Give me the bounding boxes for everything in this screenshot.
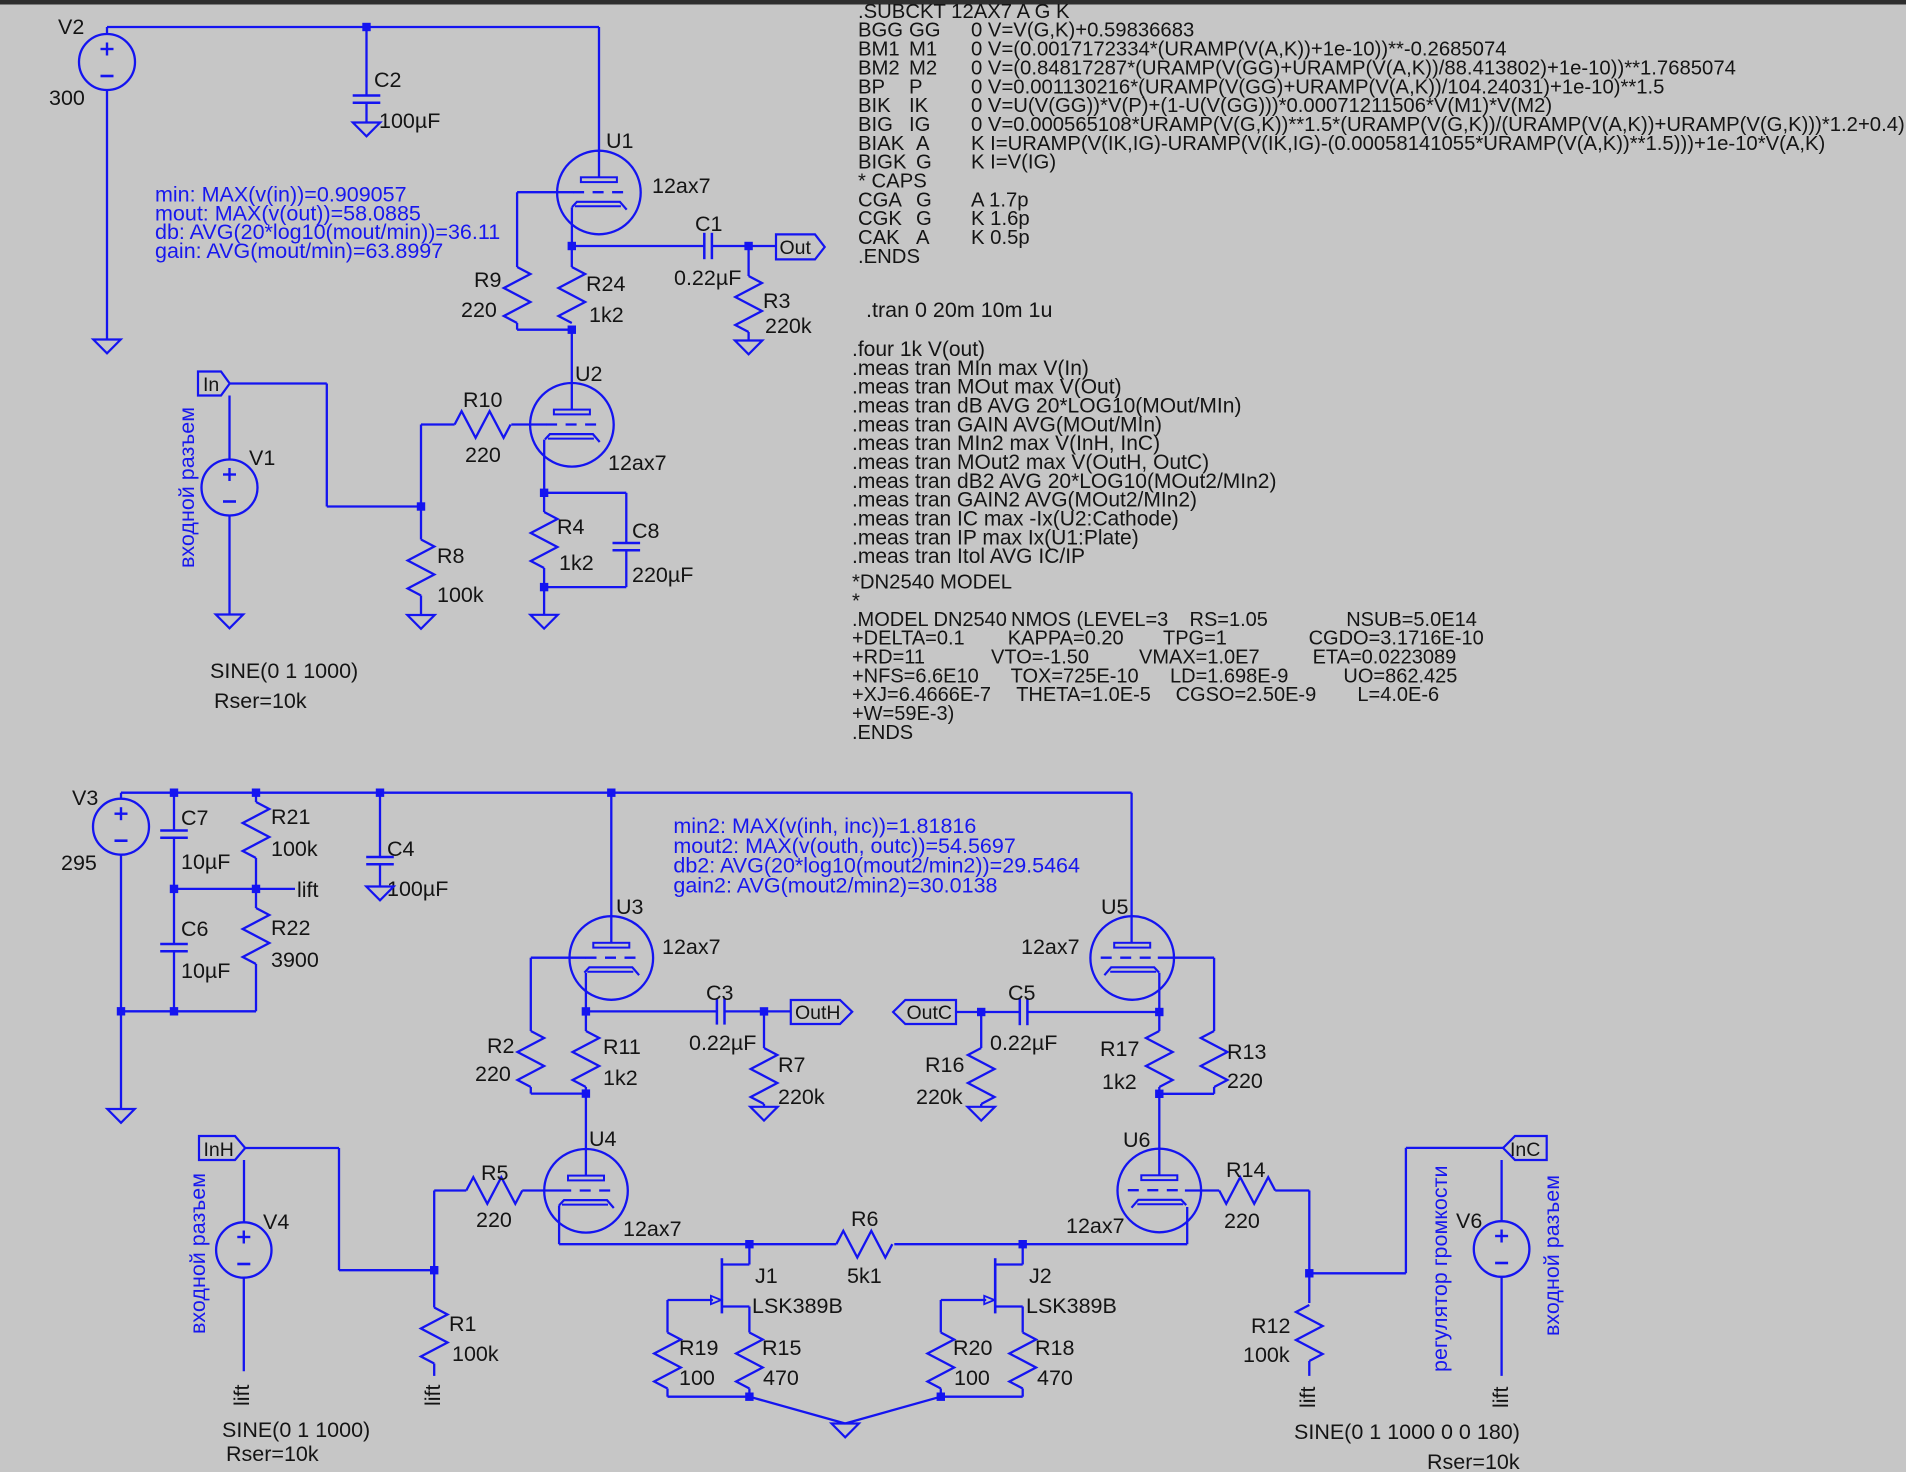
triode U6 xyxy=(1118,1149,1202,1233)
node R4 bottom / C8 xyxy=(540,583,548,591)
node J2 drain xyxy=(1019,1240,1027,1248)
svg-text:100k: 100k xyxy=(1243,1343,1290,1367)
svg-text:12ax7: 12ax7 xyxy=(662,935,721,959)
wire C4 top lead xyxy=(379,793,381,857)
ground R3 xyxy=(735,341,762,355)
wire C2 bottom lead xyxy=(365,103,367,123)
wire In to R8 node xyxy=(230,382,327,384)
wire R4 top lead xyxy=(543,493,545,512)
svg-text:SINE(0 1 1000 0 0 180): SINE(0 1 1000 0 0 180) xyxy=(1294,1420,1520,1444)
node U3 plate rail xyxy=(607,789,615,797)
svg-text:3900: 3900 xyxy=(271,948,319,972)
svg-text:10µF: 10µF xyxy=(181,959,230,983)
wire diagonal J1 to ground xyxy=(749,1397,845,1424)
node cathode U1 / output xyxy=(568,242,576,250)
node U5 cathode xyxy=(1155,1008,1163,1016)
svg-text:C4: C4 xyxy=(387,837,415,861)
node R21 top xyxy=(252,789,260,797)
resistor R16 xyxy=(968,1048,995,1104)
svg-text:0.22µF: 0.22µF xyxy=(990,1031,1057,1055)
wire R9 bottom to node xyxy=(516,323,518,330)
svg-text:Out: Out xyxy=(780,237,812,259)
capacitor C3 xyxy=(716,998,719,1024)
svg-text:470: 470 xyxy=(1037,1366,1073,1390)
port flag OutH xyxy=(791,1000,852,1024)
svg-text:220: 220 xyxy=(476,1208,512,1232)
triode U2 xyxy=(530,383,614,467)
node C7/C6 lift xyxy=(170,885,178,893)
node Out / R3 xyxy=(744,242,752,250)
wire J2 source to R18 xyxy=(1022,1307,1024,1333)
resistor R21 xyxy=(243,802,270,858)
wire R6 to J2 node xyxy=(894,1243,1187,1245)
wire R17 top lead xyxy=(1158,1012,1160,1031)
wire top rail 2 (V3 to U5) xyxy=(121,792,1132,794)
svg-text:100µF: 100µF xyxy=(387,877,448,901)
svg-text:220: 220 xyxy=(1224,1209,1260,1233)
svg-text:R7: R7 xyxy=(778,1053,805,1077)
svg-text:R21: R21 xyxy=(271,805,310,829)
svg-text:.meas tran Itol AVG IC/IP: .meas tran Itol AVG IC/IP xyxy=(852,545,1085,568)
svg-text:R3: R3 xyxy=(763,289,791,313)
svg-text:470: 470 xyxy=(763,1366,799,1390)
ground V2 xyxy=(93,340,120,354)
wire C1 to Out node xyxy=(712,245,776,247)
wire J1 source to R15 xyxy=(748,1307,750,1333)
wire R8 bottom lead xyxy=(420,596,422,616)
wire R1 top lead xyxy=(433,1270,435,1307)
triode U1 xyxy=(557,151,641,235)
wire top rail V2 to U1 plate xyxy=(107,26,599,28)
svg-text:Rser=10k: Rser=10k xyxy=(214,689,307,713)
wire C8 bottom branch xyxy=(625,550,627,587)
svg-text:lift: lift xyxy=(421,1384,445,1406)
wire R10 right lead to U2 grid xyxy=(511,423,546,425)
node U3 cathode / OutH xyxy=(582,1007,590,1015)
ground R4 xyxy=(530,615,557,629)
svg-text:U3: U3 xyxy=(616,895,644,919)
svg-text:входной разъем: входной разъем xyxy=(175,407,199,568)
wire node to C5 xyxy=(981,1011,1020,1013)
ground center xyxy=(832,1424,859,1438)
svg-text:12ax7: 12ax7 xyxy=(652,174,711,198)
resistor R4 xyxy=(531,512,558,568)
wire R16 top lead xyxy=(980,1012,982,1048)
wire U1 grid to R9 xyxy=(517,191,573,193)
svg-text:C7: C7 xyxy=(181,806,208,830)
svg-text:lift: lift xyxy=(297,878,319,902)
svg-text:C3: C3 xyxy=(706,981,734,1005)
resistor R24 xyxy=(571,246,573,267)
svg-text:C2: C2 xyxy=(374,68,401,92)
svg-text:220: 220 xyxy=(475,1062,511,1086)
node J1 bottom xyxy=(745,1393,753,1401)
svg-text:CGSO=2.50E-9: CGSO=2.50E-9 xyxy=(1176,684,1317,706)
wire C7 to lift node xyxy=(173,838,175,889)
wire InH down to V4 xyxy=(243,1160,245,1223)
svg-text:SINE(0 1 1000): SINE(0 1 1000) xyxy=(210,659,358,683)
resistor R6 xyxy=(836,1231,892,1258)
wire R18 bottom xyxy=(1022,1389,1024,1397)
svg-text:220k: 220k xyxy=(916,1085,963,1109)
node OutC / R16 / C5 xyxy=(977,1008,985,1016)
svg-text:220k: 220k xyxy=(765,314,812,338)
resistor R7 xyxy=(751,1048,778,1104)
wire C7 top lead xyxy=(173,793,175,831)
wire bottom rail to R22 xyxy=(121,1010,256,1012)
svg-text:*DN2540 MODEL: *DN2540 MODEL xyxy=(852,572,1012,594)
triode U3 xyxy=(570,916,654,1000)
wire V1 bottom to ground xyxy=(228,516,230,615)
wire U4 cathode to bus xyxy=(558,1205,560,1244)
wire cathode node to C1 xyxy=(572,245,705,247)
wire C8 top branch xyxy=(544,492,626,494)
svg-text:R15: R15 xyxy=(762,1336,801,1360)
capacitor C7 xyxy=(160,829,188,832)
wire U1 cathode lead xyxy=(571,207,573,246)
svg-text:R12: R12 xyxy=(1251,1314,1290,1338)
wire InC down to V6 xyxy=(1500,1160,1502,1221)
svg-text:U5: U5 xyxy=(1101,895,1129,919)
svg-text:R16: R16 xyxy=(925,1053,964,1077)
svg-text:220k: 220k xyxy=(778,1085,825,1109)
capacitor C1 xyxy=(703,233,706,259)
wire lift net xyxy=(174,888,295,890)
resistor R2 xyxy=(518,1031,545,1087)
wire R7 top lead xyxy=(763,1011,765,1048)
port flag Out xyxy=(776,234,825,259)
wire V6 bottom lift xyxy=(1500,1277,1502,1376)
node R8 top xyxy=(417,502,425,510)
svg-text:R17: R17 xyxy=(1100,1037,1139,1061)
capacitor C6 xyxy=(160,943,188,946)
svg-text:K I=URAMP(V(IK,IG)-URAMP(V(IK,: K I=URAMP(V(IK,IG)-URAMP(V(IK,IG)-(0.000… xyxy=(971,133,1825,155)
svg-text:295: 295 xyxy=(61,851,97,875)
node U2 cathode / R4 / C8 xyxy=(540,489,548,497)
svg-text:12ax7: 12ax7 xyxy=(623,1217,682,1241)
svg-text:L=4.0E-6: L=4.0E-6 xyxy=(1357,684,1439,706)
wire R22 top lead xyxy=(255,889,257,908)
svg-text:C6: C6 xyxy=(181,917,209,941)
svg-text:R9: R9 xyxy=(474,268,501,292)
wire R1 bottom lift xyxy=(433,1364,435,1376)
node R13/R17 bottom xyxy=(1155,1090,1163,1098)
wire InH to R1 node xyxy=(245,1147,339,1149)
svg-text:R24: R24 xyxy=(586,272,625,296)
wire R19 bottom xyxy=(666,1389,668,1397)
svg-text:lift: lift xyxy=(1489,1386,1513,1408)
node R9/R24 bottom xyxy=(568,326,576,334)
resistor R8 xyxy=(408,540,435,596)
voltage source V2 xyxy=(79,34,135,90)
resistor R3 xyxy=(735,276,762,332)
svg-text:InC: InC xyxy=(1510,1139,1540,1161)
wire U6 cathode to bus xyxy=(1186,1207,1188,1244)
svg-text:12ax7: 12ax7 xyxy=(1021,935,1080,959)
svg-text:K 0.5p: K 0.5p xyxy=(971,227,1030,249)
resistor R22 xyxy=(243,908,270,964)
wire V2 top lead xyxy=(106,27,108,34)
triode U5 xyxy=(1090,916,1174,1000)
wire R2 bottom xyxy=(530,1087,532,1094)
wire U3 cathode lead xyxy=(585,973,587,1012)
resistor R9 xyxy=(504,267,531,323)
svg-text:K I=V(IG): K I=V(IG) xyxy=(971,152,1056,174)
wire node to U2 plate xyxy=(571,330,573,411)
voltage source V6 xyxy=(1474,1221,1530,1277)
svg-text:0.22µF: 0.22µF xyxy=(689,1031,756,1055)
svg-text:gain: AVG(mout/min)=63.8997: gain: AVG(mout/min)=63.8997 xyxy=(155,239,443,263)
svg-text:lift: lift xyxy=(1296,1386,1320,1408)
svg-text:входной разъем: входной разъем xyxy=(1540,1175,1564,1336)
svg-text:12ax7: 12ax7 xyxy=(608,451,667,475)
wire U5 grid to R13 xyxy=(1158,957,1214,959)
node R1 top xyxy=(430,1266,438,1274)
svg-text:R14: R14 xyxy=(1226,1158,1265,1182)
wire R16 bottom lead xyxy=(980,1104,982,1107)
svg-text:220: 220 xyxy=(1227,1069,1263,1093)
svg-text:100k: 100k xyxy=(452,1342,499,1366)
ground V3 xyxy=(107,1109,134,1123)
wire R17 bottom lead xyxy=(1158,1087,1160,1094)
svg-text:C1: C1 xyxy=(695,212,722,236)
node R12 top xyxy=(1305,1269,1313,1277)
svg-text:5k1: 5k1 xyxy=(847,1264,882,1288)
wire node to riser xyxy=(1309,1272,1406,1274)
node R2/R11 bottom xyxy=(582,1089,590,1097)
capacitor C5 xyxy=(1019,999,1022,1025)
wire R12 bottom lift xyxy=(1308,1361,1310,1376)
resistor R18 xyxy=(1009,1333,1036,1389)
ground R16 xyxy=(968,1107,995,1121)
wire C3 to OutH node xyxy=(725,1010,791,1012)
wire U3 grid to R2 xyxy=(531,957,586,959)
svg-text:1k2: 1k2 xyxy=(559,551,594,575)
wire R11 top lead xyxy=(585,1011,587,1031)
jfet J2 xyxy=(994,1258,997,1313)
ground V1 xyxy=(216,615,243,629)
svg-text:1k2: 1k2 xyxy=(1102,1070,1137,1094)
svg-text:R5: R5 xyxy=(481,1161,509,1185)
resistor R20 xyxy=(928,1333,955,1389)
wire V2 bottom to ground xyxy=(106,90,108,340)
port flag OutC xyxy=(893,1000,956,1024)
svg-text:регулятор громкости: регулятор громкости xyxy=(1428,1166,1452,1372)
wire R22 bottom lead xyxy=(255,964,257,1011)
wire R21 top lead xyxy=(255,793,257,802)
wire R10 left lead xyxy=(421,423,455,425)
wire R4 node to ground xyxy=(543,587,545,615)
svg-text:C5: C5 xyxy=(1008,981,1036,1005)
wire U5 cathode lead xyxy=(1158,973,1160,1012)
voltage source V3 xyxy=(93,799,149,855)
svg-text:220: 220 xyxy=(461,298,497,322)
ground C4 xyxy=(366,887,393,901)
capacitor C8 xyxy=(613,542,641,545)
resistor R13 xyxy=(1201,1031,1228,1087)
svg-text:J2: J2 xyxy=(1029,1264,1052,1288)
svg-text:R10: R10 xyxy=(463,388,502,412)
wire In down to V1 xyxy=(228,396,230,460)
capacitor C2 xyxy=(353,94,381,97)
resistor R19 xyxy=(654,1333,681,1389)
svg-text:R8: R8 xyxy=(437,544,465,568)
wire U3 plate lead xyxy=(610,793,612,943)
svg-text:R6: R6 xyxy=(851,1207,879,1231)
wire node to U4 plate xyxy=(585,1094,587,1176)
svg-text:входной разъем: входной разъем xyxy=(186,1173,210,1334)
jfet J1 xyxy=(721,1258,724,1313)
wire R14 right lead xyxy=(1275,1189,1309,1191)
resistor R12 xyxy=(1296,1305,1323,1361)
node V3 bottom rail xyxy=(117,1007,125,1015)
wire V3 top lead xyxy=(120,793,122,799)
resistor R11 xyxy=(573,1031,600,1087)
svg-text:V3: V3 xyxy=(72,786,98,810)
svg-text:12ax7: 12ax7 xyxy=(1066,1214,1125,1238)
svg-text:LSK389B: LSK389B xyxy=(752,1294,843,1318)
voltage source V1 xyxy=(202,460,258,516)
wire R3 top lead xyxy=(747,246,749,276)
svg-text:U4: U4 xyxy=(589,1127,617,1151)
svg-text:220µF: 220µF xyxy=(632,563,693,587)
wire R5 right lead to U4 grid xyxy=(522,1189,560,1191)
ground R7 xyxy=(750,1107,777,1121)
wire C2 top lead xyxy=(365,27,367,96)
node R21 bottom lift xyxy=(252,885,260,893)
wire J2 gate to R20 xyxy=(940,1300,942,1333)
wire V4 bottom lift xyxy=(243,1278,245,1372)
svg-text:THETA=1.0E-5: THETA=1.0E-5 xyxy=(1016,684,1151,706)
svg-text:U6: U6 xyxy=(1123,1128,1151,1152)
svg-text:R11: R11 xyxy=(603,1035,641,1059)
wire R4 bottom lead xyxy=(543,568,545,587)
node OutH / R7 xyxy=(760,1007,768,1015)
wire R3 bottom lead xyxy=(747,332,749,341)
svg-text:300: 300 xyxy=(49,86,85,110)
svg-text:gain2: AVG(mout2/min2)=30.0138: gain2: AVG(mout2/min2)=30.0138 xyxy=(673,873,997,897)
svg-text:100k: 100k xyxy=(437,583,484,607)
svg-text:R22: R22 xyxy=(271,916,310,940)
wire C4 bottom lead xyxy=(379,864,381,886)
resistor R5 xyxy=(466,1177,522,1204)
svg-text:OutC: OutC xyxy=(907,1002,953,1024)
wire J1 gate to R19 xyxy=(666,1300,668,1333)
svg-text:1k2: 1k2 xyxy=(589,303,624,327)
wire R21 bottom lead xyxy=(255,858,257,889)
wire R12 top lead xyxy=(1308,1273,1310,1303)
svg-text:J1: J1 xyxy=(755,1264,778,1288)
svg-text:lift: lift xyxy=(230,1384,254,1406)
capacitor C4 xyxy=(366,856,394,859)
wire U6 grid to R14 xyxy=(1185,1189,1219,1191)
node junction top rail / C2 xyxy=(362,23,370,31)
svg-text:V4: V4 xyxy=(263,1210,289,1234)
wire C6 top lead xyxy=(173,889,175,944)
svg-text:R18: R18 xyxy=(1035,1336,1074,1360)
node C6 bottom xyxy=(170,1007,178,1015)
svg-text:100µF: 100µF xyxy=(379,109,440,133)
svg-text:220: 220 xyxy=(465,443,501,467)
svg-text:0.22µF: 0.22µF xyxy=(674,266,741,290)
wire diagonal J2 to ground xyxy=(845,1397,941,1424)
triode U4 xyxy=(544,1149,628,1233)
svg-text:R13: R13 xyxy=(1227,1040,1266,1064)
svg-text:Rser=10k: Rser=10k xyxy=(1427,1450,1520,1472)
svg-text:1k2: 1k2 xyxy=(603,1066,638,1090)
svg-text:Rser=10k: Rser=10k xyxy=(226,1442,319,1466)
wire R13 bottom xyxy=(1213,1087,1215,1094)
wire V3 to ground xyxy=(120,1011,122,1109)
wire R15 bottom xyxy=(748,1389,750,1397)
port flag InC xyxy=(1503,1136,1547,1160)
wire R8 top lead xyxy=(420,507,422,540)
resistor R1 xyxy=(421,1308,448,1364)
wire OutC to node xyxy=(956,1011,981,1013)
node C7 top xyxy=(170,789,178,797)
svg-text:R4: R4 xyxy=(557,515,585,539)
ground R8 xyxy=(407,615,434,629)
voltage source V4 xyxy=(216,1222,271,1277)
svg-text:U1: U1 xyxy=(606,129,633,153)
wire R11 bottom lead xyxy=(585,1087,587,1094)
wire R7 bottom lead xyxy=(763,1104,765,1107)
svg-text:OutH: OutH xyxy=(795,1002,841,1024)
resistor R15 xyxy=(736,1333,763,1389)
ground C2 xyxy=(353,123,380,137)
svg-text:.ENDS: .ENDS xyxy=(858,246,920,268)
wire R20 bottom xyxy=(940,1389,942,1397)
svg-text:In: In xyxy=(203,374,219,396)
svg-text:V6: V6 xyxy=(1456,1209,1482,1233)
svg-text:V1: V1 xyxy=(249,446,275,470)
wire V3 bottom xyxy=(120,855,122,1012)
svg-text:100k: 100k xyxy=(271,837,318,861)
wire C5 to U5 cathode node xyxy=(1027,1011,1159,1013)
svg-text:R20: R20 xyxy=(953,1336,992,1360)
svg-text:LSK389B: LSK389B xyxy=(1026,1294,1117,1318)
wire R18 bottom to J2 node xyxy=(941,1396,1023,1398)
node J2 bottom xyxy=(937,1393,945,1401)
wire U2 cathode lead xyxy=(543,440,545,493)
svg-text:100: 100 xyxy=(679,1366,715,1390)
resistor R10 xyxy=(455,411,511,438)
svg-text:U2: U2 xyxy=(575,362,602,386)
svg-text:10µF: 10µF xyxy=(181,850,230,874)
resistor R14 xyxy=(1219,1177,1275,1204)
svg-text:R19: R19 xyxy=(679,1336,718,1360)
wire node to U6 plate xyxy=(1158,1094,1160,1176)
svg-text:100: 100 xyxy=(954,1366,990,1390)
svg-text:R2: R2 xyxy=(487,1034,514,1058)
svg-text:C8: C8 xyxy=(632,519,660,543)
wire cathode node to C3 xyxy=(586,1010,717,1012)
svg-text:.ENDS: .ENDS xyxy=(852,722,913,744)
node J1 drain xyxy=(745,1240,753,1248)
svg-text:SINE(0 1 1000): SINE(0 1 1000) xyxy=(222,1418,370,1442)
svg-text:R1: R1 xyxy=(449,1312,476,1336)
svg-text:V2: V2 xyxy=(58,15,84,39)
svg-text:.tran 0 20m 10m 1u: .tran 0 20m 10m 1u xyxy=(866,298,1052,322)
wire R5 left lead xyxy=(434,1189,466,1191)
node C4 top xyxy=(376,789,384,797)
wire C6 bottom lead xyxy=(173,951,175,1011)
resistor R17 xyxy=(1146,1031,1173,1087)
svg-text:InH: InH xyxy=(204,1139,234,1161)
